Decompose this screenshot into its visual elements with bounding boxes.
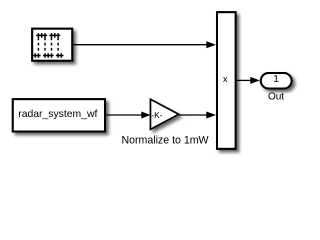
svg-text:Out: Out — [268, 92, 284, 103]
svg-text:Normalize to 1mW: Normalize to 1mW — [121, 135, 208, 147]
svg-text:x: x — [223, 74, 228, 84]
svg-text:1: 1 — [273, 74, 279, 85]
svg-text:radar_system_wf: radar_system_wf — [18, 109, 97, 120]
svg-text:-K-: -K- — [151, 110, 162, 120]
